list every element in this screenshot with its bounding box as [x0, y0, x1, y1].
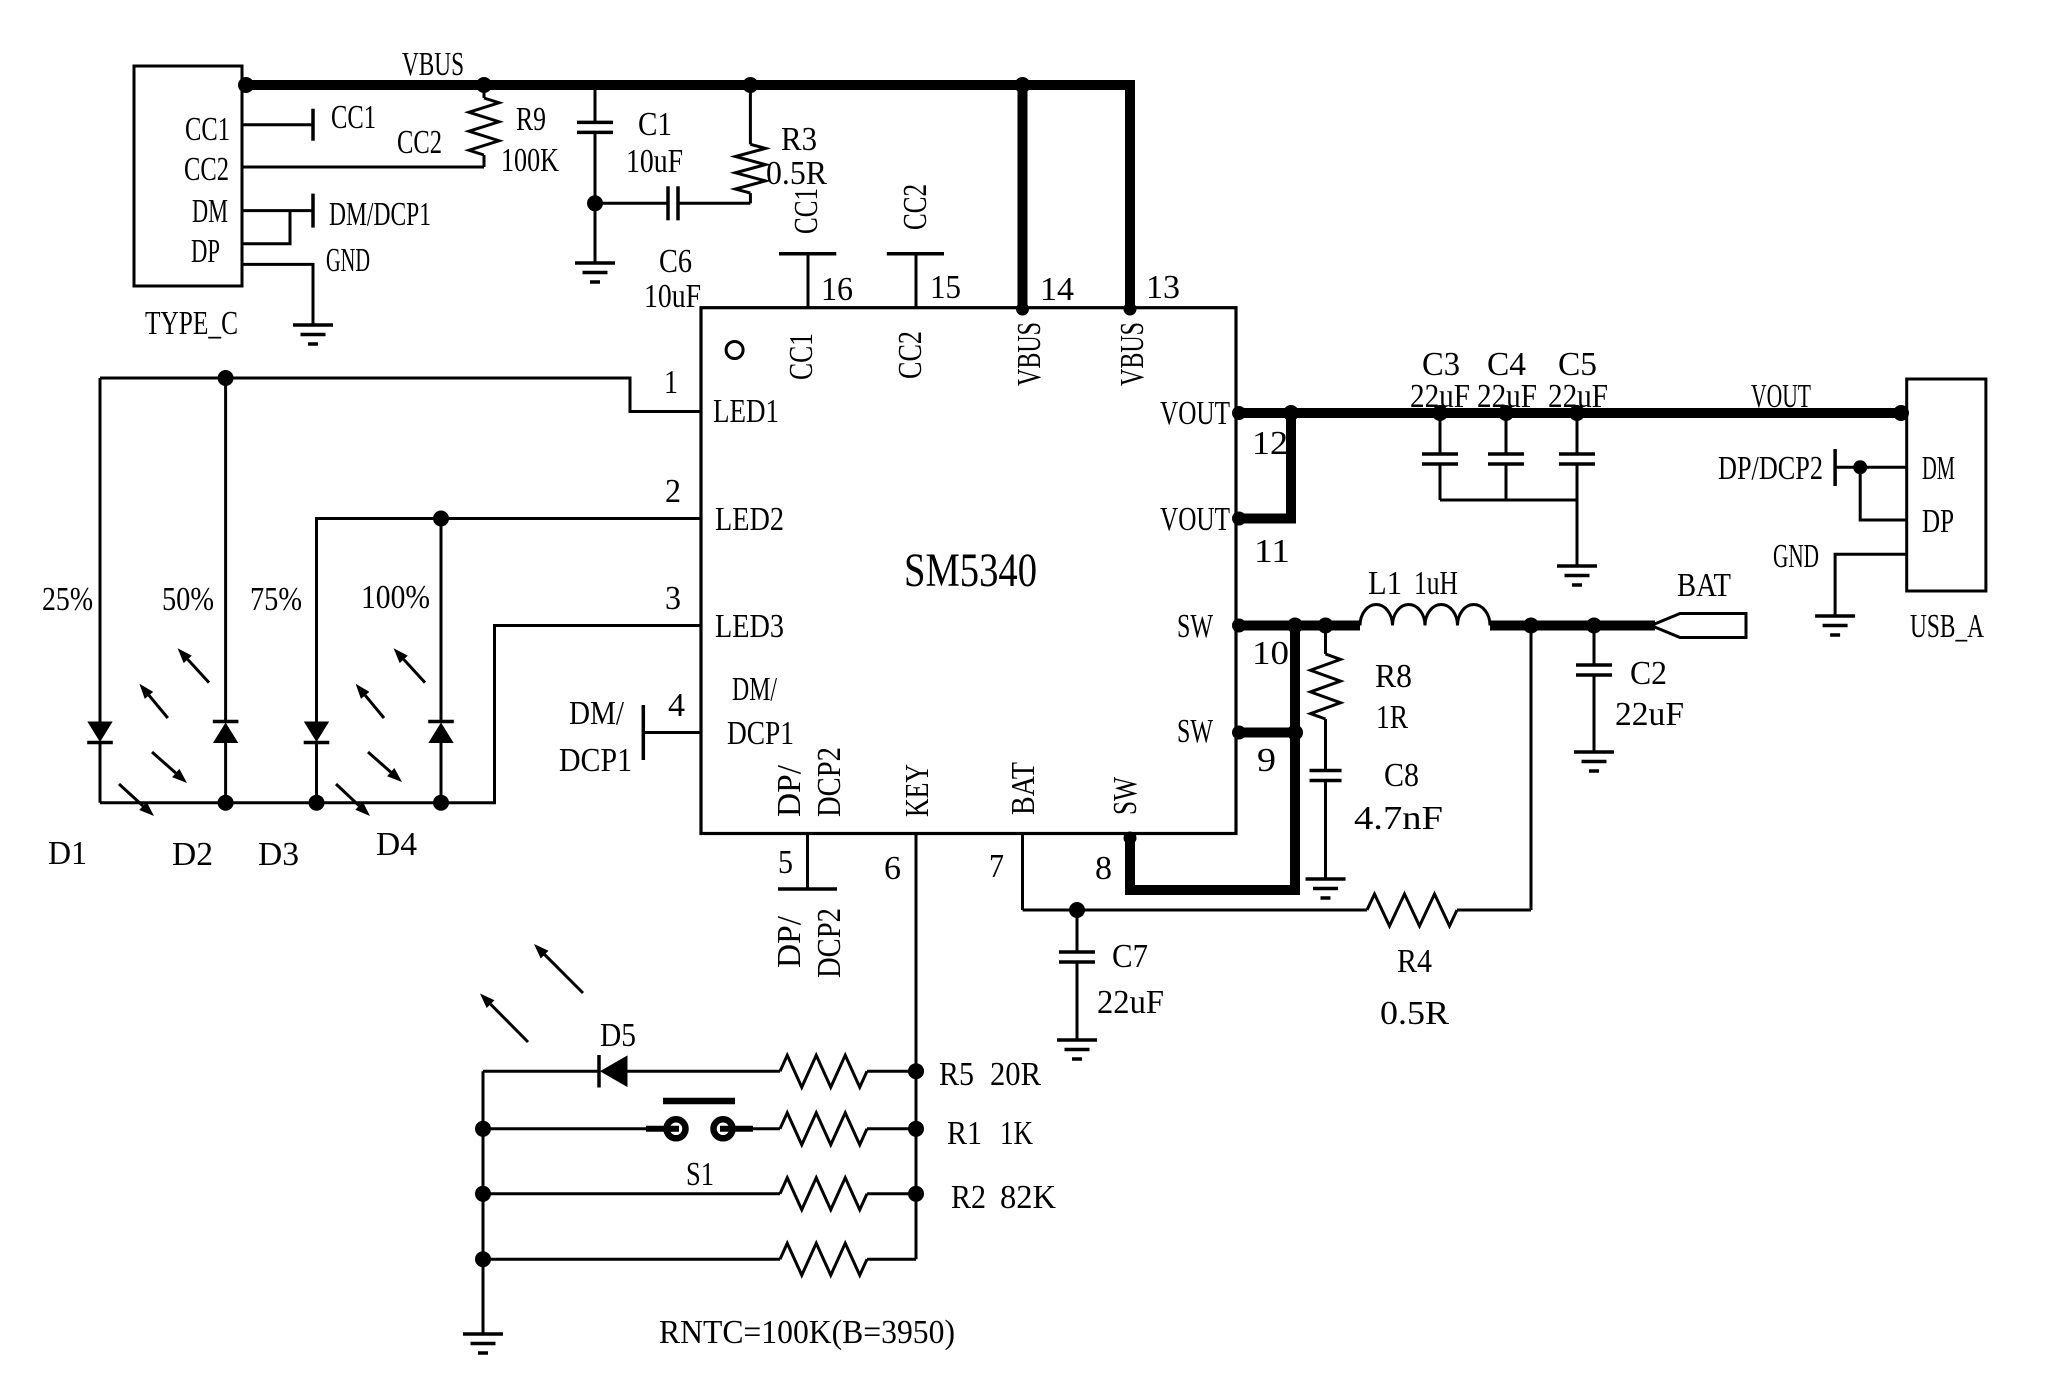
net label CC1 (pin 16)	[788, 188, 825, 234]
net label CC2 (pin 15)	[897, 184, 934, 230]
net label CC1	[331, 99, 376, 136]
pin label CC2 (inside)	[892, 331, 929, 379]
svg-text:GND: GND	[1773, 538, 1819, 575]
svg-text:D1: D1	[48, 835, 87, 872]
wire D2 branch	[224, 378, 227, 722]
pin number 11	[1254, 533, 1290, 570]
node D2 bottom	[218, 795, 234, 811]
pin number 6	[884, 850, 901, 887]
svg-text:SW: SW	[1177, 608, 1214, 645]
label R9	[516, 101, 546, 138]
terminal CC1	[311, 109, 315, 141]
node VBUS at pin 14	[1015, 77, 1031, 93]
node KEY/R1	[908, 1121, 924, 1137]
svg-text:12: 12	[1252, 425, 1288, 462]
pin label DP (USB_A)	[1922, 503, 1954, 540]
node pin 9 stub cap	[1232, 726, 1246, 740]
svg-text:DM/: DM/	[569, 695, 624, 732]
label USB_A	[1910, 608, 1984, 645]
svg-text:DP: DP	[191, 233, 220, 270]
wire KEY vertical	[915, 834, 918, 1260]
node VBUS at TYPE_C	[238, 77, 254, 93]
svg-text:BAT: BAT	[1005, 762, 1042, 815]
net label GND (USB_A)	[1773, 538, 1819, 575]
node rail/R2	[475, 1186, 491, 1202]
svg-text:10uF: 10uF	[626, 143, 683, 180]
svg-text:R4: R4	[1397, 943, 1432, 980]
svg-text:1uH: 1uH	[1414, 565, 1458, 602]
svg-text:DP: DP	[1922, 503, 1954, 540]
pin label BAT (inside)	[1005, 762, 1042, 815]
node KEY/R2	[908, 1186, 924, 1202]
svg-text:10uF: 10uF	[644, 278, 701, 315]
wire SW pin 10 (thick)	[1236, 621, 1360, 631]
svg-text:DCP2: DCP2	[811, 908, 848, 978]
svg-text:VOUT: VOUT	[1751, 378, 1811, 415]
label C6	[659, 243, 692, 280]
svg-text:0.5R: 0.5R	[766, 155, 827, 192]
node D3 bottom	[309, 795, 325, 811]
wire VOUT rail (thick)	[1236, 408, 1907, 418]
svg-text:C6: C6	[659, 243, 692, 280]
ground (USB_A)	[1815, 616, 1855, 635]
wire row R2 left	[483, 1192, 780, 1195]
label C3	[1422, 346, 1460, 383]
node pin 13 stub cap	[1124, 303, 1137, 316]
label R2	[951, 1179, 986, 1216]
svg-text:DP/: DP/	[771, 915, 808, 968]
wire D1 cathode	[99, 743, 102, 803]
value 10uF (C1)	[626, 143, 683, 180]
svg-text:VBUS: VBUS	[1114, 322, 1151, 386]
label 50%	[162, 581, 214, 618]
svg-text:CC1: CC1	[788, 188, 825, 234]
wire GND (USB_A)	[1835, 554, 1907, 616]
wire LED2 net	[317, 519, 702, 723]
terminal DM/DCP1 (pin 4)	[642, 705, 646, 760]
pin number 10	[1252, 635, 1289, 672]
terminal DM/DCP1 (TYPE_C)	[311, 194, 315, 228]
pin label VBUS (inside 13)	[1114, 322, 1151, 386]
label D3	[258, 836, 299, 873]
label D5	[600, 1017, 636, 1054]
svg-text:50%: 50%	[162, 581, 214, 618]
diode D5	[599, 1055, 780, 1088]
svg-text:D2: D2	[172, 836, 213, 873]
pin label SW (inside 8)	[1107, 776, 1144, 815]
svg-text:100%: 100%	[361, 579, 430, 616]
pin number 1	[664, 364, 678, 401]
label D1	[48, 835, 87, 872]
pin number 4	[668, 687, 685, 724]
node KEY/R5	[908, 1063, 924, 1079]
node C7	[1069, 902, 1085, 918]
pin number 16	[821, 271, 853, 308]
resistor R1	[780, 1113, 916, 1145]
ground (C8)	[1306, 879, 1346, 898]
value 22uF (C3)	[1410, 378, 1470, 415]
svg-text:C1: C1	[638, 106, 672, 143]
LED D4	[428, 722, 454, 743]
svg-text:6: 6	[884, 850, 901, 887]
pin label CC2 (TYPE_C)	[184, 151, 229, 188]
wire VBUS drop to pin 14 (thick)	[1018, 85, 1028, 308]
svg-text:20R: 20R	[990, 1056, 1041, 1093]
wire D2 bottom	[224, 743, 227, 803]
pin label LED1	[713, 393, 779, 430]
ground (C3-C5)	[1557, 566, 1597, 585]
svg-text:15: 15	[930, 269, 961, 306]
light arrows D3/D4 down	[336, 752, 402, 816]
svg-text:DM/: DM/	[732, 671, 777, 708]
net label BAT	[1677, 567, 1731, 604]
label C5	[1558, 346, 1597, 383]
ground (C7)	[1057, 1040, 1097, 1059]
light arrows D5	[480, 944, 583, 1042]
capacitor C2	[1576, 626, 1612, 753]
label 75%	[250, 581, 302, 618]
wire LED1 net	[100, 378, 701, 412]
label R3	[781, 121, 817, 158]
svg-text:DP/: DP/	[771, 764, 808, 817]
value 1K	[1000, 1115, 1033, 1152]
value 22uF (C5)	[1548, 378, 1608, 415]
svg-text:VBUS: VBUS	[402, 46, 464, 83]
svg-text:DCP2: DCP2	[811, 747, 848, 817]
resistor RNTC	[780, 1243, 916, 1275]
wire C5 to ground	[1576, 500, 1579, 566]
node VOUT corner	[1283, 405, 1299, 421]
resistor R8	[1311, 626, 1341, 771]
svg-text:22uF: 22uF	[1477, 378, 1537, 415]
label R8	[1375, 658, 1412, 695]
value 4.7nF	[1354, 800, 1443, 837]
net label DCP1 (pin 4)	[559, 742, 632, 779]
svg-text:22uF: 22uF	[1548, 378, 1608, 415]
svg-text:BAT: BAT	[1677, 567, 1731, 604]
svg-text:100K: 100K	[501, 142, 559, 179]
svg-text:VBUS: VBUS	[1011, 322, 1048, 386]
svg-text:LED3: LED3	[715, 608, 784, 645]
LED D3	[304, 722, 330, 743]
value 1R	[1376, 699, 1408, 736]
svg-text:25%: 25%	[42, 581, 93, 618]
capacitor C1	[577, 85, 613, 203]
label L1	[1368, 565, 1402, 602]
wire row RNTC left	[483, 1258, 780, 1261]
pin label VOUT (inside 12)	[1160, 395, 1230, 432]
ground (C2)	[1574, 752, 1614, 771]
label C7	[1112, 938, 1148, 975]
resistor R5	[780, 1055, 916, 1087]
svg-text:KEY: KEY	[899, 764, 936, 817]
capacitor C7	[1059, 910, 1095, 1040]
svg-text:L1: L1	[1368, 565, 1402, 602]
node D4 bottom	[433, 795, 449, 811]
wire BAT line (thick)	[1490, 621, 1655, 631]
pin label VOUT (inside 11)	[1160, 501, 1230, 538]
pin number 13	[1146, 269, 1180, 306]
pin number 15	[930, 269, 961, 306]
svg-text:CC2: CC2	[184, 151, 229, 188]
svg-text:VOUT: VOUT	[1160, 395, 1230, 432]
pin label CC1 (TYPE_C)	[185, 111, 230, 148]
net label DP/DCP2	[1718, 450, 1823, 487]
svg-text:13: 13	[1146, 269, 1180, 306]
ground (TYPE_C)	[293, 325, 333, 344]
label C1	[638, 106, 672, 143]
net label CC2	[397, 124, 442, 161]
pin label VBUS (inside 14)	[1011, 322, 1048, 386]
pin label SW (inside 9)	[1177, 713, 1214, 750]
svg-text:10: 10	[1252, 635, 1289, 672]
wire D1 anode	[99, 378, 102, 722]
light arrows D1/D2 up	[139, 648, 209, 718]
node VOUT at C5	[1569, 405, 1585, 421]
pin number 14	[1040, 271, 1074, 308]
wire D4 bottom	[440, 743, 443, 803]
terminal DP/DCP2 (pin 5)	[778, 834, 837, 890]
svg-text:USB_A: USB_A	[1910, 608, 1984, 645]
pin label CC1 (inside)	[783, 333, 820, 380]
wire CC2	[242, 166, 484, 169]
label C4	[1487, 346, 1526, 383]
svg-text:7: 7	[989, 848, 1004, 885]
LED D2	[213, 722, 239, 743]
pin number 12	[1252, 425, 1288, 462]
node VOUT at USB_A	[1893, 405, 1909, 421]
value 100K	[501, 142, 559, 179]
svg-text:R5: R5	[939, 1056, 974, 1093]
node VOUT at C4	[1498, 405, 1514, 421]
label R5	[939, 1056, 974, 1093]
svg-text:3: 3	[665, 580, 681, 617]
svg-text:11: 11	[1254, 533, 1290, 570]
wire row R5 left	[483, 1070, 599, 1073]
node rail/S1	[475, 1121, 491, 1137]
connector USB_A	[1907, 379, 1986, 591]
wire CC1	[242, 123, 313, 126]
ground (C1)	[575, 263, 615, 282]
value 22uF (C2)	[1615, 696, 1684, 733]
wire DM/DCP1 pin 4	[643, 731, 701, 734]
node VBUS at R3	[742, 77, 758, 93]
value 1uH	[1414, 565, 1458, 602]
wire D4 branch	[440, 519, 443, 722]
wire SW pin 9 stub (thick)	[1236, 728, 1295, 738]
LED D1	[87, 722, 113, 743]
svg-text:SW: SW	[1177, 713, 1214, 750]
node pin 11 stub cap	[1232, 512, 1246, 526]
net label DCP2 (pin 5)	[811, 908, 848, 978]
svg-text:1K: 1K	[1000, 1115, 1033, 1152]
pin number 7	[989, 848, 1004, 885]
wire S1 to R1	[733, 1127, 780, 1130]
wire DP	[242, 211, 290, 244]
resistor R2	[780, 1178, 916, 1210]
op-amp U1 SM5340 body	[701, 308, 1236, 834]
svg-text:RNTC=100K(B=3950): RNTC=100K(B=3950)	[659, 1314, 955, 1351]
svg-text:CC1: CC1	[783, 333, 820, 380]
node SW/R8	[1318, 618, 1334, 634]
wire D3 cathode	[315, 743, 318, 803]
pin number 9	[1257, 742, 1276, 779]
node C2/BAT	[1586, 618, 1602, 634]
svg-text:R8: R8	[1375, 658, 1412, 695]
svg-text:R2: R2	[951, 1179, 986, 1216]
resistor R3	[735, 85, 765, 203]
light arrows D1/D2 down	[119, 752, 187, 816]
svg-text:C7: C7	[1112, 938, 1148, 975]
resistor R4	[1367, 894, 1531, 926]
wire C3-C5 common	[1440, 499, 1577, 502]
node C1/C6	[587, 195, 603, 211]
svg-text:R9: R9	[516, 101, 546, 138]
node SW pin10/vertical	[1287, 618, 1303, 634]
value 22uF (C4)	[1477, 378, 1537, 415]
svg-text:CC2: CC2	[892, 331, 929, 379]
wire SW pin 8 (thick)	[1130, 626, 1295, 891]
svg-text:75%: 75%	[250, 581, 302, 618]
capacitor C8	[1310, 771, 1342, 880]
svg-text:SW: SW	[1107, 776, 1144, 815]
svg-text:0.5R: 0.5R	[1380, 995, 1449, 1032]
svg-text:CC2: CC2	[897, 184, 934, 230]
svg-text:DM/DCP1: DM/DCP1	[329, 196, 431, 233]
net label VBUS	[402, 46, 464, 83]
node VOUT at C3	[1432, 405, 1448, 421]
svg-text:22uF: 22uF	[1410, 378, 1470, 415]
wire BAT pin 7	[1023, 834, 1368, 911]
switch S1	[646, 1101, 753, 1138]
svg-text:2: 2	[665, 473, 681, 510]
value 22uF (C7)	[1097, 984, 1164, 1021]
terminal DP/DCP2	[1833, 449, 1837, 486]
wire key left rail	[482, 1071, 485, 1334]
svg-text:22uF: 22uF	[1097, 984, 1164, 1021]
node pin 14 stub cap	[1016, 303, 1029, 316]
svg-text:SM5340: SM5340	[904, 544, 1037, 597]
value 20R	[990, 1056, 1041, 1093]
capacitor C4	[1488, 413, 1524, 500]
svg-text:DM: DM	[192, 193, 228, 230]
pin label DP (TYPE_C)	[191, 233, 220, 270]
svg-text:4.7nF: 4.7nF	[1354, 800, 1443, 837]
label R1	[947, 1115, 982, 1152]
net label DP/ (pin 5)	[771, 915, 808, 968]
pin label DCP2 (inside)	[811, 747, 848, 817]
svg-text:C2: C2	[1630, 655, 1667, 692]
wire LED3 net	[100, 626, 701, 803]
svg-text:D4: D4	[376, 826, 417, 863]
label TYPE_C	[145, 305, 238, 342]
node pin 8 stub cap	[1124, 832, 1137, 845]
capacitor C3	[1422, 413, 1458, 500]
pin number 5	[778, 844, 793, 881]
value RNTC=100K(B=3950)	[659, 1314, 955, 1351]
svg-text:R3: R3	[781, 121, 817, 158]
pin label DM (TYPE_C)	[192, 193, 228, 230]
svg-text:DCP1: DCP1	[727, 715, 794, 752]
svg-text:9: 9	[1257, 742, 1276, 779]
pin label DM (USB_A)	[1922, 450, 1955, 487]
pin label LED2	[715, 501, 784, 538]
svg-text:GND: GND	[326, 242, 370, 279]
pin 1 marker circle	[726, 342, 743, 359]
label D2	[172, 836, 213, 873]
net label GND (TYPE_C)	[326, 242, 370, 279]
node DM/DP	[1853, 460, 1867, 474]
svg-text:DP/DCP2: DP/DCP2	[1718, 450, 1823, 487]
inductor L1	[1360, 605, 1490, 626]
value 82K	[1000, 1179, 1056, 1216]
label 100%	[361, 579, 430, 616]
label R4	[1397, 943, 1432, 980]
wire C1 to ground	[594, 203, 597, 263]
svg-text:1R: 1R	[1376, 699, 1408, 736]
svg-text:82K: 82K	[1000, 1179, 1056, 1216]
node pin 12 stub cap	[1232, 406, 1246, 420]
capacitor C6	[595, 186, 750, 220]
pin number 3	[665, 580, 681, 617]
net label DM/DCP1	[329, 196, 431, 233]
terminal CC1 pin 16	[779, 254, 836, 308]
connector TYPE_C	[134, 66, 242, 286]
svg-text:CC1: CC1	[331, 99, 376, 136]
node D2 top	[218, 370, 234, 386]
svg-text:CC1: CC1	[185, 111, 230, 148]
svg-text:CC2: CC2	[397, 124, 442, 161]
value 10uF (C6)	[644, 278, 701, 315]
wire DP link	[1860, 467, 1907, 520]
value 0.5R (R4)	[1380, 995, 1449, 1032]
svg-text:1: 1	[664, 364, 678, 401]
wire DP/DCP2 to DM	[1835, 466, 1907, 469]
svg-text:R1: R1	[947, 1115, 982, 1152]
svg-text:DM: DM	[1922, 450, 1955, 487]
svg-text:4: 4	[668, 687, 685, 724]
svg-text:VOUT: VOUT	[1160, 501, 1230, 538]
capacitor C5	[1559, 413, 1595, 500]
terminal BAT	[1651, 614, 1746, 638]
net label DM/ (pin 4)	[569, 695, 624, 732]
pin label SW (inside 10)	[1177, 608, 1214, 645]
svg-text:C8: C8	[1384, 757, 1419, 794]
pin label LED3	[715, 608, 784, 645]
svg-text:S1: S1	[686, 1156, 714, 1193]
terminal CC2 pin 15	[887, 254, 944, 308]
label 25%	[42, 581, 93, 618]
svg-text:5: 5	[778, 844, 793, 881]
pin label KEY (inside)	[899, 764, 936, 817]
svg-text:8: 8	[1095, 850, 1112, 887]
node R4/BAT	[1523, 618, 1539, 634]
node SW pin9/vertical	[1287, 725, 1303, 741]
node VBUS at R9	[476, 77, 492, 93]
svg-text:TYPE_C: TYPE_C	[145, 305, 238, 342]
label SM5340	[904, 544, 1037, 597]
light arrows D3/D4 up	[356, 648, 425, 718]
node pin 10 stub cap	[1232, 619, 1246, 633]
svg-text:DCP1: DCP1	[559, 742, 632, 779]
wire GND (TYPE_C)	[242, 264, 313, 325]
label C8	[1384, 757, 1419, 794]
label S1	[686, 1156, 714, 1193]
pin number 8	[1095, 850, 1112, 887]
wire R4 to BAT node	[1530, 626, 1533, 911]
wire VOUT pin 11 link (thick)	[1236, 413, 1291, 519]
pin label DP/ (inside)	[771, 764, 808, 817]
